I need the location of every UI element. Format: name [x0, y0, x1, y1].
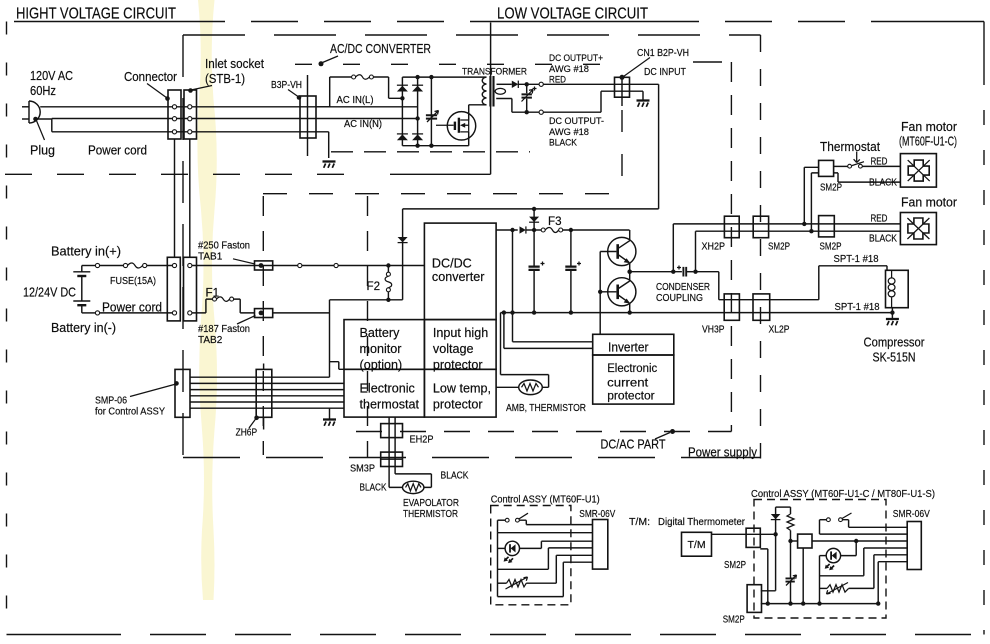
- svg-text:thermostat: thermostat: [360, 398, 420, 412]
- svg-text:Fan motor: Fan motor: [901, 196, 957, 210]
- svg-text:EVAPOLATOR: EVAPOLATOR: [403, 498, 459, 509]
- svg-text:HIGHT VOLTAGE CIRCUIT: HIGHT VOLTAGE CIRCUIT: [16, 6, 176, 23]
- svg-text:Input high: Input high: [433, 326, 488, 340]
- svg-text:DC/DC: DC/DC: [432, 257, 472, 271]
- svg-text:DC OUTPUT-: DC OUTPUT-: [549, 116, 604, 127]
- svg-text:CN1 B2P-VH: CN1 B2P-VH: [637, 48, 689, 59]
- svg-text:Battery in(-): Battery in(-): [51, 321, 116, 335]
- svg-text:(STB-1): (STB-1): [205, 72, 245, 86]
- svg-text:RED: RED: [871, 213, 888, 224]
- svg-text:Low temp,: Low temp,: [433, 382, 491, 396]
- svg-text:protector: protector: [607, 389, 655, 403]
- svg-text:F2: F2: [367, 280, 381, 293]
- svg-text:Digital Thermometer: Digital Thermometer: [658, 516, 745, 528]
- svg-text:Electronic: Electronic: [607, 361, 657, 375]
- svg-text:Compressor: Compressor: [864, 336, 925, 350]
- svg-text:Control ASSY (MT60F-U1-C / MT8: Control ASSY (MT60F-U1-C / MT80F-U1-S): [751, 488, 935, 500]
- svg-text:60Hz: 60Hz: [30, 84, 56, 98]
- svg-text:AMB, THERMISTOR: AMB, THERMISTOR: [506, 403, 586, 414]
- svg-text:SM3P: SM3P: [350, 464, 375, 475]
- svg-text:TAB1: TAB1: [198, 252, 223, 263]
- svg-text:DC INPUT: DC INPUT: [644, 67, 686, 78]
- svg-text:Power cord: Power cord: [88, 144, 147, 158]
- svg-text:T/M: T/M: [688, 539, 706, 551]
- svg-text:monitor: monitor: [360, 342, 402, 356]
- svg-text:(option): (option): [360, 358, 403, 372]
- svg-text:(MT60F-U1-C): (MT60F-U1-C): [899, 135, 957, 149]
- svg-text:SK-515N: SK-515N: [873, 351, 916, 365]
- svg-text:#250 Faston: #250 Faston: [198, 241, 250, 252]
- svg-text:ZH6P: ZH6P: [236, 428, 258, 439]
- svg-text:12/24V DC: 12/24V DC: [23, 286, 76, 300]
- svg-text:SM2P: SM2P: [723, 615, 745, 626]
- svg-text:SMR-06V: SMR-06V: [579, 508, 615, 520]
- svg-text:Plug: Plug: [30, 144, 55, 158]
- svg-text:LOW VOLTAGE CIRCUIT: LOW VOLTAGE CIRCUIT: [497, 6, 648, 23]
- svg-text:BLACK: BLACK: [441, 471, 469, 482]
- svg-text:Power supply: Power supply: [688, 446, 758, 460]
- svg-text:VH3P: VH3P: [702, 325, 725, 336]
- svg-text:Battery in(+): Battery in(+): [51, 245, 121, 259]
- svg-text:T/M:: T/M:: [629, 516, 650, 528]
- svg-text:XL2P: XL2P: [769, 325, 790, 336]
- svg-text:BLACK: BLACK: [549, 138, 578, 149]
- svg-text:current: current: [607, 375, 649, 389]
- svg-text:SM2P: SM2P: [724, 560, 746, 571]
- svg-text:SM2P: SM2P: [820, 242, 842, 253]
- svg-text:SMP-06: SMP-06: [95, 396, 127, 407]
- svg-text:Thermostat: Thermostat: [820, 140, 880, 154]
- svg-text:F1: F1: [206, 287, 220, 300]
- svg-text:BLACK: BLACK: [869, 177, 897, 188]
- svg-text:SPT-1 #18: SPT-1 #18: [834, 254, 879, 265]
- svg-text:DC OUTPUT+: DC OUTPUT+: [549, 53, 603, 64]
- svg-text:#187 Faston: #187 Faston: [198, 324, 250, 335]
- svg-text:XH2P: XH2P: [702, 242, 726, 253]
- svg-text:Battery: Battery: [360, 326, 401, 340]
- svg-text:Inlet socket: Inlet socket: [205, 57, 264, 71]
- svg-text:voltage: voltage: [433, 342, 474, 356]
- svg-text:AWG #18: AWG #18: [549, 127, 589, 138]
- svg-text:AC IN(N): AC IN(N): [344, 119, 382, 130]
- svg-text:converter: converter: [432, 270, 485, 284]
- svg-text:CONDENSER: CONDENSER: [656, 282, 710, 293]
- svg-text:AC/DC CONVERTER: AC/DC CONVERTER: [330, 42, 431, 56]
- svg-text:THERMISTOR: THERMISTOR: [403, 509, 458, 520]
- svg-text:COUPLING: COUPLING: [656, 293, 703, 304]
- svg-text:RED: RED: [871, 156, 888, 167]
- svg-text:protector: protector: [433, 358, 483, 372]
- svg-text:AC IN(L): AC IN(L): [337, 95, 374, 106]
- svg-text:BLACK: BLACK: [869, 233, 897, 244]
- svg-text:AWG #18: AWG #18: [549, 64, 589, 75]
- svg-text:Connector: Connector: [124, 70, 177, 84]
- svg-text:SPT-1 #18: SPT-1 #18: [835, 302, 880, 313]
- svg-text:DC/AC PART: DC/AC PART: [601, 438, 666, 452]
- svg-text:Fan motor: Fan motor: [901, 120, 957, 134]
- svg-text:B3P-VH: B3P-VH: [271, 80, 302, 91]
- svg-text:RED: RED: [549, 75, 566, 86]
- svg-text:EH2P: EH2P: [410, 435, 434, 446]
- svg-text:Electronic: Electronic: [360, 382, 415, 396]
- svg-text:TRANSFORMER: TRANSFORMER: [462, 67, 527, 78]
- svg-text:120V AC: 120V AC: [30, 69, 73, 83]
- svg-text:TAB2: TAB2: [198, 335, 223, 346]
- svg-text:Control ASSY (MT60F-U1): Control ASSY (MT60F-U1): [491, 494, 600, 506]
- svg-text:SM2P: SM2P: [820, 183, 842, 194]
- svg-text:SM2P: SM2P: [768, 242, 790, 253]
- svg-text:protector: protector: [433, 398, 483, 412]
- svg-text:F3: F3: [548, 215, 562, 228]
- svg-text:Inverter: Inverter: [608, 340, 649, 354]
- svg-text:for Control ASSY: for Control ASSY: [95, 407, 165, 418]
- svg-text:BLACK: BLACK: [360, 483, 387, 494]
- svg-text:SMR-06V: SMR-06V: [893, 508, 930, 520]
- svg-text:FUSE(15A): FUSE(15A): [110, 276, 156, 287]
- svg-text:Power cord: Power cord: [102, 301, 162, 315]
